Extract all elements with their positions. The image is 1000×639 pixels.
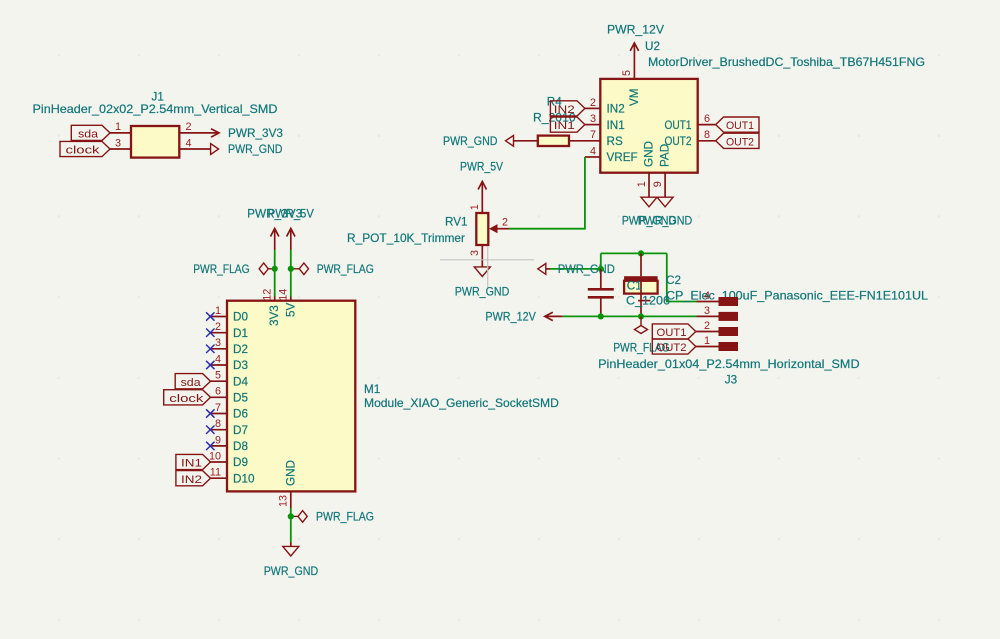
power flag PWR_FLAG at M1 GND <box>291 515 298 517</box>
J1 pin 1 <box>110 132 131 134</box>
global label OUT2 (U2 pin8) <box>716 133 759 148</box>
U2 pin 9 (PAD) <box>664 173 666 198</box>
svg-text:7: 7 <box>215 402 221 414</box>
svg-text:D5: D5 <box>233 392 248 405</box>
svg-text:4: 4 <box>215 353 221 365</box>
svg-text:IN2: IN2 <box>181 474 202 486</box>
J3 pad pin3 <box>719 312 739 321</box>
svg-text:OUT1: OUT1 <box>665 119 692 132</box>
module M1 body <box>227 301 355 492</box>
M1 pin 6 (D5) <box>211 396 228 398</box>
global label OUT1 (U2 pin6) <box>716 117 759 132</box>
power symbol PWR_GND at R4 <box>506 135 514 146</box>
svg-text:OUT1: OUT1 <box>726 120 754 132</box>
power symbol PWR_12V at bottom wire <box>545 312 553 320</box>
svg-text:Module_XIAO_Generic_SocketSMD: Module_XIAO_Generic_SocketSMD <box>364 397 559 410</box>
svg-text:C2: C2 <box>666 274 681 287</box>
svg-text:D6: D6 <box>233 408 248 421</box>
J3 pin 1 <box>696 346 719 348</box>
svg-text:U2: U2 <box>645 40 660 53</box>
svg-text:4: 4 <box>704 290 710 302</box>
svg-text:clock: clock <box>169 393 203 405</box>
svg-text:5: 5 <box>215 370 221 382</box>
svg-text:PWR_3V3: PWR_3V3 <box>228 127 283 140</box>
svg-text:4: 4 <box>590 145 596 157</box>
J3 pad pin4 <box>719 297 739 306</box>
J1 pin 2 <box>179 132 219 134</box>
svg-text:IN2: IN2 <box>554 104 575 116</box>
M1 pin 13 (GND) <box>290 491 292 508</box>
wire 5V vertical <box>290 250 292 297</box>
svg-text:14: 14 <box>278 289 290 301</box>
U2 body <box>600 79 697 173</box>
svg-text:3: 3 <box>590 113 596 125</box>
power symbol PWR_12V above U2 <box>630 43 638 51</box>
svg-text:PWR_GND: PWR_GND <box>638 215 693 228</box>
U2 pin 4 <box>585 156 600 158</box>
svg-text:3: 3 <box>704 305 710 317</box>
global label IN2 (M1 pin11) <box>176 471 211 486</box>
svg-text:D4: D4 <box>233 375 248 388</box>
svg-text:PAD: PAD <box>659 144 672 167</box>
capacitor C2 polarity tick <box>638 300 650 302</box>
U2 pin 6 <box>698 124 716 126</box>
svg-text:IN2: IN2 <box>607 103 625 116</box>
svg-text:OUT1: OUT1 <box>657 327 687 339</box>
svg-text:8: 8 <box>704 129 710 141</box>
global label IN2 (U2 pin2) <box>550 101 585 116</box>
svg-text:C_1206: C_1206 <box>626 294 670 307</box>
RV1 pin 3 <box>481 245 483 267</box>
junction at C1 top <box>598 266 604 272</box>
M1 pin 4 (D3) <box>211 364 228 366</box>
svg-text:9: 9 <box>215 434 221 446</box>
svg-text:D2: D2 <box>233 343 248 356</box>
svg-text:4: 4 <box>185 137 191 149</box>
svg-text:C1: C1 <box>627 280 642 293</box>
svg-text:R_POT_10K_Trimmer: R_POT_10K_Trimmer <box>347 232 465 245</box>
svg-text:5V: 5V <box>284 302 297 317</box>
no-connect X on M1 pin 4 <box>206 361 214 369</box>
no-connect X on M1 pin 3 <box>206 345 214 353</box>
no-connect X on M1 pin 8 <box>206 426 214 434</box>
svg-text:GND: GND <box>643 141 656 167</box>
svg-text:2: 2 <box>215 321 221 333</box>
svg-text:3: 3 <box>469 250 481 256</box>
power symbol PWR_GND at U2 pin1 <box>641 197 657 207</box>
RV1 body <box>476 213 488 245</box>
M1 pin 9 (D8) <box>211 445 228 447</box>
capacitor C1 top pin <box>600 269 602 289</box>
U2 pin 2 <box>585 107 600 109</box>
U2 pin 7 <box>569 140 600 142</box>
global label sda (J1 pin1) <box>71 125 110 140</box>
svg-text:PWR_FLAG: PWR_FLAG <box>193 263 249 276</box>
svg-text:IN1: IN1 <box>181 458 202 470</box>
global label OUT2 (J3 pin1) <box>652 339 696 354</box>
RV1 wiper arrow pin 2 <box>489 224 498 233</box>
power symbol PWR_5V above RV1 <box>478 182 486 190</box>
junction on 3V3 wire <box>272 266 278 272</box>
svg-text:PWR_12V: PWR_12V <box>485 311 536 324</box>
svg-text:D7: D7 <box>233 424 248 437</box>
svg-text:PWR_GND: PWR_GND <box>558 263 615 276</box>
power symbol PWR_GND below M1 <box>290 542 292 546</box>
svg-text:1: 1 <box>704 335 710 347</box>
svg-text:12: 12 <box>262 289 274 301</box>
cursor crosshair <box>440 259 534 261</box>
U2 pin 3 <box>585 124 600 126</box>
U2 pin 1 (GND) <box>648 173 650 198</box>
M1 pin 14 (5V) <box>290 297 292 301</box>
J1 pin 3 <box>110 148 131 150</box>
svg-text:OUT2: OUT2 <box>726 136 754 148</box>
junction at M1 GND <box>288 513 294 519</box>
J3 pin 4 <box>697 301 719 303</box>
svg-text:PinHeader_02x02_P2.54mm_Vertic: PinHeader_02x02_P2.54mm_Vertical_SMD <box>33 103 278 116</box>
svg-text:D1: D1 <box>233 327 248 340</box>
svg-text:M1: M1 <box>364 383 380 396</box>
svg-text:10: 10 <box>209 450 221 462</box>
U2 pin 8 <box>698 140 716 142</box>
svg-text:sda: sda <box>181 377 202 389</box>
svg-text:OUT2: OUT2 <box>657 342 687 354</box>
power flag PWR_FLAG right of 5V wire <box>291 268 300 270</box>
global label clock (J1 pin3) <box>60 141 110 156</box>
M1 pin 12 (3V3) <box>274 297 276 301</box>
power symbol PWR_3V3 above M1 <box>271 229 279 237</box>
junction at C2 top <box>638 250 644 256</box>
svg-text:PWR_5V: PWR_5V <box>268 208 314 221</box>
M1 pin 8 (D7) <box>211 429 228 431</box>
svg-text:PWR_12V: PWR_12V <box>607 24 664 37</box>
svg-text:GND: GND <box>284 460 297 486</box>
global label IN1 (U2 pin3) <box>550 117 585 132</box>
wire RV1 wiper to U2 VREF <box>509 157 585 229</box>
svg-text:VM: VM <box>628 88 641 106</box>
M1 pin 3 (D2) <box>211 348 228 350</box>
svg-text:D10: D10 <box>233 472 255 485</box>
svg-text:6: 6 <box>704 113 710 125</box>
capacitor C1 bottom pin <box>600 297 602 316</box>
J1 pin 4 <box>179 148 210 150</box>
svg-text:D3: D3 <box>233 359 248 372</box>
svg-text:1: 1 <box>636 181 648 187</box>
svg-text:MotorDriver_BrushedDC_Toshiba_: MotorDriver_BrushedDC_Toshiba_TB67H451FN… <box>648 56 925 69</box>
capacitor C2 bottom pin <box>640 294 642 317</box>
svg-text:VREF: VREF <box>607 151 638 164</box>
svg-text:D0: D0 <box>233 311 248 324</box>
J3 pin 2 <box>696 331 719 333</box>
svg-text:3: 3 <box>215 337 221 349</box>
power symbol PWR_GND left of C1 <box>538 264 546 275</box>
svg-text:1: 1 <box>215 305 221 317</box>
global label IN1 (M1 pin10) <box>176 454 211 469</box>
svg-text:IN1: IN1 <box>607 119 625 132</box>
junction at C2 bottom <box>638 313 644 319</box>
svg-text:D8: D8 <box>233 440 248 453</box>
wire PWR_12V horizontal <box>563 315 697 317</box>
svg-text:5: 5 <box>621 70 633 76</box>
svg-text:3: 3 <box>115 137 121 149</box>
wire right vertical to J3 pin4 <box>667 253 697 301</box>
svg-text:PWR_GND: PWR_GND <box>455 285 510 298</box>
power flag PWR_FLAG left of 3V3 wire <box>268 268 274 270</box>
svg-text:PWR_GND: PWR_GND <box>443 135 498 148</box>
J3 pad pin2 <box>719 327 739 336</box>
svg-text:IN1: IN1 <box>554 120 575 132</box>
svg-text:PWR_GND: PWR_GND <box>228 143 283 156</box>
power symbol PWR_GND at U2 pin9 <box>657 197 673 207</box>
connector J1 body <box>131 126 179 158</box>
J3 pin 3 <box>697 315 719 317</box>
capacitor C2 top pin <box>640 253 642 276</box>
M1 pin 10 (D9) <box>211 461 228 463</box>
M1 pin 1 (D0) <box>211 316 228 318</box>
capacitor C2 body <box>624 281 658 294</box>
svg-text:PWR_GND: PWR_GND <box>264 565 319 578</box>
svg-text:9: 9 <box>652 181 664 187</box>
M1 pin 11 (D10) <box>211 477 228 479</box>
no-connect X on M1 pin 1 <box>206 312 214 320</box>
svg-text:RS: RS <box>607 135 623 148</box>
svg-text:PWR_5V: PWR_5V <box>460 160 503 173</box>
wire top horizontal <box>601 252 667 254</box>
no-connect X on M1 pin 9 <box>206 442 214 450</box>
svg-text:clock: clock <box>66 145 100 157</box>
no-connect X on M1 pin 2 <box>206 329 214 337</box>
global label clock (M1 pin6) <box>164 390 211 405</box>
power symbol PWR_3V3 at J1 pin2 <box>211 129 219 137</box>
wire PWR_GND to C1 top <box>550 268 601 270</box>
svg-text:PWR_FLAG: PWR_FLAG <box>316 510 374 523</box>
power symbol PWR_5V above M1 <box>287 229 295 237</box>
resistor R4 body <box>538 136 569 146</box>
svg-text:2: 2 <box>502 216 508 228</box>
svg-text:7: 7 <box>590 129 596 141</box>
svg-text:PinHeader_01x04_P2.54mm_Horizo: PinHeader_01x04_P2.54mm_Horizontal_SMD <box>598 358 860 371</box>
svg-text:J3: J3 <box>725 374 737 387</box>
M1 pin 2 (D1) <box>211 332 228 334</box>
M1 pin 5 (D4) <box>211 380 228 382</box>
svg-text:1: 1 <box>469 204 481 210</box>
power symbol PWR_GND at J1 pin4 <box>211 144 219 155</box>
M1 pin 7 (D6) <box>211 413 228 415</box>
svg-text:D9: D9 <box>233 456 248 469</box>
svg-text:11: 11 <box>210 467 221 479</box>
svg-text:2: 2 <box>704 320 710 332</box>
junction at C1 bottom <box>598 313 604 319</box>
svg-text:13: 13 <box>278 495 290 507</box>
svg-text:2: 2 <box>185 121 191 133</box>
svg-text:RV1: RV1 <box>445 216 468 229</box>
svg-text:2: 2 <box>590 97 596 109</box>
junction on 5V wire <box>288 266 294 272</box>
RV1 wiper stub <box>498 228 510 230</box>
wire M1 GND down <box>290 508 292 542</box>
svg-text:sda: sda <box>78 129 99 141</box>
svg-text:PWR_FLAG: PWR_FLAG <box>317 263 374 276</box>
wire 3V3 vertical <box>274 250 276 297</box>
svg-text:3V3: 3V3 <box>268 305 281 326</box>
power symbol PWR_GND below RV1 <box>474 267 490 277</box>
svg-text:8: 8 <box>215 418 221 430</box>
no-connect X on M1 pin 7 <box>206 409 214 417</box>
power flag PWR_FLAG below C2 <box>640 316 642 325</box>
svg-text:1: 1 <box>115 121 121 133</box>
capacitor C1 plates <box>588 288 614 291</box>
svg-text:J1: J1 <box>152 90 164 103</box>
global label sda (M1 pin5) <box>175 374 210 389</box>
svg-text:6: 6 <box>215 386 221 398</box>
J3 pad pin1 <box>719 342 739 351</box>
global label OUT1 (J3 pin2) <box>652 324 696 339</box>
wire C1 top up <box>600 253 602 269</box>
